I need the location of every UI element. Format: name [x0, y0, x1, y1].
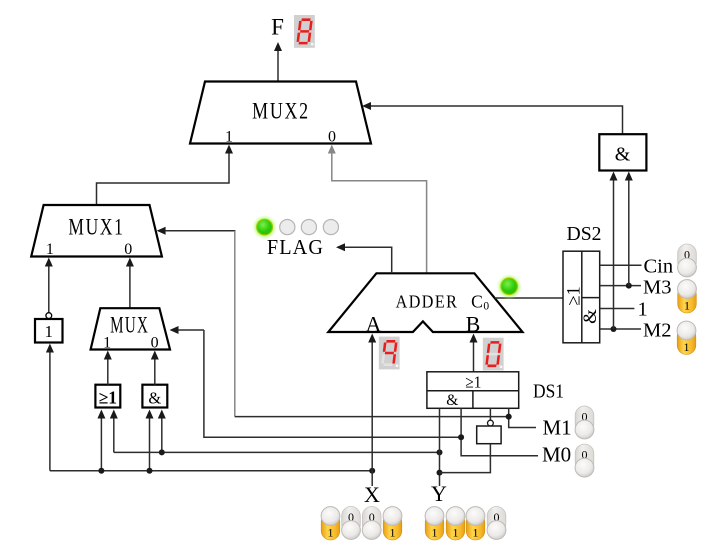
wire DS1 pin1 Y net [439, 408, 441, 486]
svg-text:≥1: ≥1 [465, 374, 481, 392]
op: MUX1 [31, 205, 162, 257]
wire F output of MUX2 [277, 49, 279, 82]
wire M1 net horizontal [235, 416, 509, 418]
svg-text:1: 1 [684, 340, 690, 354]
svg-text:0: 0 [483, 301, 489, 313]
op: DS1 block [427, 372, 519, 409]
svg-text:&: & [446, 392, 458, 409]
svg-text:F: F [271, 15, 284, 40]
svg-text:1: 1 [328, 525, 334, 539]
FLAG LED 1 glow [252, 215, 277, 240]
svg-text:FLAG: FLAG [267, 234, 324, 259]
wire Y net horizontal [114, 451, 440, 453]
junction M3 [626, 283, 632, 289]
wire adder sum to MUX2 input 0 (gray) [332, 152, 427, 273]
FLAG LED 3 [301, 220, 316, 235]
wire MUX out to MUX1 input 0 [129, 265, 131, 308]
svg-text:1: 1 [390, 525, 396, 539]
wire DS2 pin Cin [600, 264, 642, 266]
wire Y net into AND input b [161, 418, 163, 452]
7-seg display A value 9 [379, 337, 400, 370]
wire DS1 pin3 to NOT2 [489, 408, 491, 420]
svg-text:&: & [148, 389, 161, 408]
switch Y2 [446, 507, 465, 540]
switch Y0 [487, 507, 506, 540]
svg-text:M0: M0 [542, 443, 571, 467]
bubble of NOT1 [46, 313, 52, 319]
switch M0 [575, 444, 594, 477]
junction M0 / MUX select [458, 434, 464, 440]
wire MUX1 out to MUX2 input 1 [97, 152, 230, 205]
svg-text:1: 1 [473, 525, 479, 539]
wire AND2 out to MUX2 select [371, 106, 623, 134]
wire DS2 pin constant 1 [600, 308, 635, 310]
junction M1 / MUX1 select [506, 414, 512, 420]
svg-text:M2: M2 [643, 320, 671, 342]
svg-text:1: 1 [46, 241, 54, 258]
op: AND2 gate (top right) [599, 134, 646, 170]
svg-text:Cin: Cin [644, 256, 674, 278]
FLAG LED 2 [280, 220, 295, 235]
switches group [321, 244, 696, 540]
svg-text:Y: Y [431, 481, 447, 506]
svg-text:1: 1 [225, 129, 233, 146]
switch M1 [575, 406, 594, 439]
wire DS1 pin4 to M1 [509, 408, 536, 427]
svg-text:DS1: DS1 [533, 381, 564, 403]
junction M2 [611, 326, 617, 332]
svg-text:0: 0 [151, 335, 159, 352]
wire M2 up to AND2 input a [613, 180, 615, 329]
svg-text:X: X [364, 482, 380, 507]
wire M3 up to AND2 input b [628, 180, 630, 286]
wire AND out to MUX input 0 [154, 358, 156, 385]
svg-text:ADDER: ADDER [396, 292, 459, 312]
wire NOT1 out to MUX1 input 1 [48, 265, 50, 313]
switch X3 [321, 507, 340, 540]
wire NOT2 in from Y net [440, 444, 491, 473]
op: OR gate (&ge;1) [95, 385, 120, 408]
wire M0 net to MUX select [179, 329, 204, 331]
wire ADDER C0 to DS2 [495, 297, 563, 299]
7-seg display F value 8 [294, 15, 315, 48]
wire X net up to NOT1 input [49, 352, 51, 471]
svg-text:≥1: ≥1 [564, 286, 584, 305]
bubble of NOT2 [488, 420, 494, 426]
switch Y1 [466, 507, 485, 540]
op: ADDER [328, 273, 522, 332]
wire X input down to X [371, 471, 373, 486]
wire Y net into OR input b [113, 418, 115, 452]
op: MUX2 [190, 82, 371, 144]
wire M0 net down and right [204, 330, 461, 437]
switch M3 [678, 280, 697, 313]
wire M1 net to MUX1 select [166, 230, 236, 232]
LED C0 (green) [501, 278, 517, 294]
DS2 divider right cell [582, 297, 600, 299]
wire DS1 out up to ADDER B [473, 341, 475, 372]
op: NOT1 constant box [35, 319, 63, 343]
junction X net / OR a [98, 468, 104, 474]
DS2 divider vertical [581, 251, 583, 343]
junction X net / AND a [147, 468, 153, 474]
wire X net into OR input a [100, 418, 102, 471]
switch M2 [677, 321, 696, 354]
wire OR out to MUX input 1 [107, 358, 109, 385]
wire DS2 pin M2 [600, 328, 641, 330]
svg-text:B: B [466, 312, 481, 337]
svg-text:M3: M3 [643, 277, 671, 299]
svg-text:1: 1 [684, 298, 690, 312]
junction Y net / DS1 pin1 [437, 449, 443, 455]
svg-text:M1: M1 [543, 416, 572, 440]
switch Cin [678, 244, 697, 277]
FLAG LED 4 [323, 220, 338, 235]
svg-text:C: C [471, 292, 483, 312]
switch Y3 [425, 507, 444, 540]
op: AND gate [142, 385, 167, 408]
svg-text:1: 1 [453, 525, 459, 539]
svg-text:A: A [366, 312, 382, 337]
junction X net / X input [369, 468, 375, 474]
op: NOT2 box [477, 426, 501, 444]
op: DS2 block [563, 251, 600, 343]
svg-text:MUX2: MUX2 [252, 100, 310, 125]
wire X net into AND input a [149, 418, 151, 471]
DS1 divider bottom cell [472, 391, 474, 409]
junction Y / NOT2 out [437, 470, 443, 476]
svg-text:MUX: MUX [110, 314, 149, 339]
svg-text:&: & [615, 144, 631, 166]
svg-text:1: 1 [432, 525, 438, 539]
svg-text:DS2: DS2 [567, 223, 602, 245]
svg-text:≥1: ≥1 [99, 388, 117, 408]
junction Y net / AND b [159, 449, 165, 455]
wire X input up to ADDER A [371, 341, 373, 471]
svg-text:MUX1: MUX1 [68, 215, 124, 240]
7-seg display B value 0 [483, 338, 504, 371]
svg-text:0: 0 [328, 129, 336, 146]
op: MUX small [91, 308, 170, 349]
wire ADDER flag out to FLAG [345, 247, 392, 273]
svg-text:0: 0 [124, 241, 132, 258]
svg-text:&: & [580, 309, 601, 324]
switch X2 [342, 507, 361, 540]
wire M1 net vertical (gray) [234, 231, 236, 417]
svg-text:1: 1 [44, 322, 53, 341]
LED C0 glow [496, 274, 522, 300]
FLAG LED 1 (green) [257, 219, 273, 235]
svg-text:1: 1 [103, 335, 111, 352]
wire X net horizontal [50, 470, 372, 472]
switch X0 [383, 507, 402, 540]
svg-text:1: 1 [638, 299, 648, 321]
DS1 divider horizontal [427, 390, 519, 392]
wire DS1 pin2 to M0 [461, 408, 538, 456]
switch X1 [362, 507, 381, 540]
wire DS2 pin M3 [600, 285, 641, 287]
